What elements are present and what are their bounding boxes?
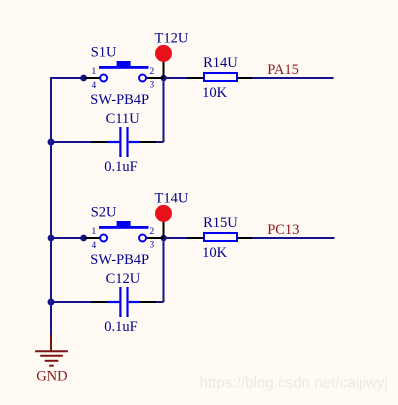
svg-text:10K: 10K <box>202 85 228 101</box>
svg-text:S2U: S2U <box>91 205 117 221</box>
svg-text:1: 1 <box>92 227 97 237</box>
svg-text:R14U: R14U <box>203 55 238 71</box>
svg-text:0.1uF: 0.1uF <box>104 159 137 175</box>
svg-text:GND: GND <box>36 368 67 384</box>
svg-text:4: 4 <box>92 241 97 251</box>
svg-text:SW-PB4P: SW-PB4P <box>90 252 149 268</box>
svg-text:R15U: R15U <box>203 215 238 231</box>
svg-text:C12U: C12U <box>106 271 141 287</box>
svg-text:SW-PB4P: SW-PB4P <box>90 92 149 108</box>
svg-text:1: 1 <box>92 67 97 77</box>
svg-text:T12U: T12U <box>155 31 189 47</box>
svg-text:https://blog.csdn.net/caijiwyj: https://blog.csdn.net/caijiwyj <box>200 374 388 391</box>
svg-text:S1U: S1U <box>91 45 117 61</box>
svg-text:2: 2 <box>150 67 155 77</box>
svg-text:PC13: PC13 <box>267 222 299 238</box>
svg-text:4: 4 <box>92 81 97 91</box>
svg-text:10K: 10K <box>202 245 228 261</box>
svg-text:C11U: C11U <box>106 111 141 127</box>
svg-text:2: 2 <box>150 227 155 237</box>
svg-text:0.1uF: 0.1uF <box>104 319 137 335</box>
svg-text:3: 3 <box>150 81 155 91</box>
svg-text:T14U: T14U <box>155 191 189 207</box>
svg-text:3: 3 <box>150 241 155 251</box>
svg-text:PA15: PA15 <box>267 62 299 78</box>
